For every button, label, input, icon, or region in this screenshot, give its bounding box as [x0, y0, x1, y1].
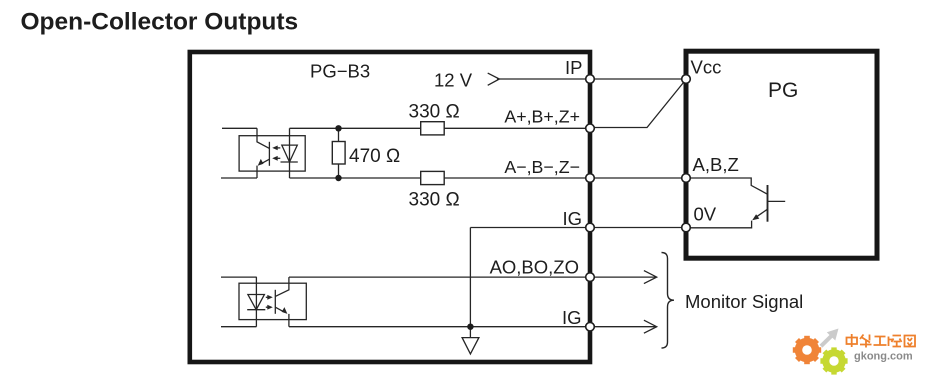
- junction dot A+ / 470: [335, 125, 341, 131]
- logo chinese text: [847, 334, 916, 348]
- wire IG upper: [470, 227, 686, 229]
- junction dot A- / 470: [335, 175, 341, 181]
- logo char zhong: [847, 334, 858, 347]
- terminal IG lower: [586, 322, 595, 331]
- 12 V source arrow: [488, 73, 500, 85]
- svg-text:A,B,Z: A,B,Z: [693, 154, 739, 175]
- opto1 LED vertical: [289, 128, 291, 178]
- opto2 right connector bottom: [288, 314, 290, 327]
- terminal A+: [586, 124, 595, 133]
- wire IG2 left stub: [221, 326, 256, 328]
- terminal Vcc: [682, 75, 691, 84]
- svg-text:IG: IG: [562, 307, 582, 328]
- opto1 light arrow lower shaft: [276, 157, 281, 159]
- svg-text:A+,B+,Z+: A+,B+,Z+: [504, 107, 580, 127]
- junction dot IG2: [467, 324, 473, 330]
- svg-text:AO,BO,ZO: AO,BO,ZO: [490, 256, 579, 277]
- opto2 LED triangle: [248, 295, 265, 310]
- Q1 emitter arrowhead: [752, 214, 759, 220]
- Q1 base lead: [768, 200, 786, 202]
- wire Vcc diagonal to A+ node: [590, 80, 686, 128]
- svg-text:12 V: 12 V: [434, 70, 473, 91]
- opto2 right connector top: [275, 277, 289, 296]
- svg-text:330 Ω: 330 Ω: [409, 190, 460, 211]
- opto2 light arrow lower shaft: [266, 306, 271, 308]
- svg-text:Monitor Signal: Monitor Signal: [685, 291, 803, 312]
- wire AO to arrow: [590, 276, 656, 278]
- wire IG2 line: [289, 326, 590, 328]
- opto2 light arrowhead upper: [267, 295, 273, 300]
- opto1 base bar: [268, 142, 270, 166]
- opto2 LED vertical: [255, 277, 257, 327]
- arrow IG monitor: [644, 320, 657, 333]
- wire 12V to IP to Vcc: [497, 78, 686, 80]
- ground arrow: [462, 338, 479, 354]
- terminal 0V: [682, 223, 691, 232]
- opto2 LED bar: [247, 309, 265, 311]
- wire A- line: [290, 177, 591, 179]
- watermark gkong logo: [793, 329, 915, 375]
- logo gray arrow: [820, 329, 839, 348]
- logo green gear: [820, 347, 847, 374]
- resistor R 470 vertical: [332, 142, 345, 165]
- opto1 emitter arrowhead: [258, 159, 264, 166]
- opto2 emitter: [275, 307, 284, 312]
- resistor R 330 upper: [421, 122, 445, 135]
- wire A+ left stub: [222, 127, 257, 129]
- opto1 box: [239, 136, 305, 171]
- brace Monitor Signal: [662, 253, 675, 349]
- wire IG vertical drop: [469, 228, 471, 338]
- svg-text:gkong.com: gkong.com: [854, 351, 913, 363]
- optocoupler PC2 (lower): [239, 277, 306, 327]
- wire A- left stub: [221, 177, 257, 179]
- wire IG2 to arrow: [590, 326, 656, 328]
- svg-text:A−,B−,Z−: A−,B−,Z−: [504, 157, 580, 177]
- svg-text:Vcc: Vcc: [691, 57, 722, 78]
- terminal A,B,Z: [682, 174, 691, 183]
- opto1 light arrowhead upper: [272, 146, 278, 151]
- opto2 base bar: [274, 290, 276, 314]
- wire A,B,Z to transistor collector: [686, 178, 767, 194]
- svg-text:IG: IG: [562, 208, 582, 229]
- terminal A-: [586, 174, 595, 183]
- svg-text:0V: 0V: [694, 204, 717, 225]
- optocoupler PC1 (upper): [239, 128, 305, 178]
- PG box: [686, 51, 877, 258]
- PG-B3 box: [190, 52, 590, 362]
- logo char wang: [905, 336, 916, 347]
- opto1 LED bar: [281, 161, 298, 163]
- transistor Q1 in PG: [757, 185, 786, 222]
- svg-text:PG: PG: [768, 79, 798, 102]
- svg-text:330 Ω: 330 Ω: [409, 102, 460, 123]
- logo char kong: [889, 336, 902, 347]
- opto1 left connector bottom: [256, 166, 258, 178]
- opto1 emitter: [261, 159, 270, 164]
- opto1 light arrowhead lower: [272, 156, 278, 161]
- svg-text:470 Ω: 470 Ω: [349, 146, 400, 167]
- wire AO left stub: [221, 276, 257, 278]
- logo char gong: [874, 337, 887, 346]
- terminal IP: [586, 75, 595, 84]
- wire 470 top stub: [338, 128, 340, 141]
- arrow AO monitor: [644, 271, 657, 284]
- wire AO line: [289, 276, 590, 278]
- opto2 emitter arrowhead: [282, 307, 288, 314]
- opto2 light arrow upper shaft: [266, 296, 271, 298]
- resistor R 330 lower: [421, 171, 445, 184]
- opto1 left connector top: [257, 128, 269, 148]
- wire 470 bottom stub: [338, 164, 340, 178]
- opto1 light arrow upper shaft: [276, 147, 281, 149]
- logo char hua: [860, 335, 872, 348]
- terminal IG upper: [586, 223, 595, 232]
- wire A+ line: [290, 127, 591, 129]
- svg-text:Open-Collector Outputs: Open-Collector Outputs: [21, 9, 299, 36]
- wire 0V to transistor emitter: [686, 221, 752, 228]
- svg-text:PG−B3: PG−B3: [310, 61, 370, 82]
- Q1 emitter line: [757, 209, 768, 217]
- terminal AO: [586, 273, 595, 282]
- opto1 LED triangle: [282, 145, 298, 162]
- logo orange gear: [793, 336, 821, 364]
- opto2 light arrowhead lower: [267, 305, 273, 310]
- opto2 box: [239, 283, 306, 319]
- Q1 base bar: [767, 185, 769, 222]
- wire A- to PG: [590, 177, 686, 179]
- svg-text:IP: IP: [565, 57, 582, 78]
